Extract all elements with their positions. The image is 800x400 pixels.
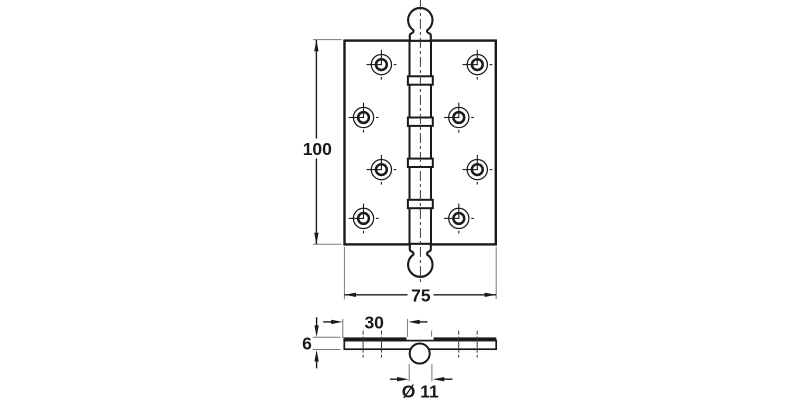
svg-text:75: 75 — [411, 286, 431, 306]
svg-text:Ø 11: Ø 11 — [402, 381, 439, 400]
svg-text:100: 100 — [303, 139, 332, 159]
svg-text:30: 30 — [364, 313, 384, 333]
svg-text:6: 6 — [302, 334, 312, 354]
